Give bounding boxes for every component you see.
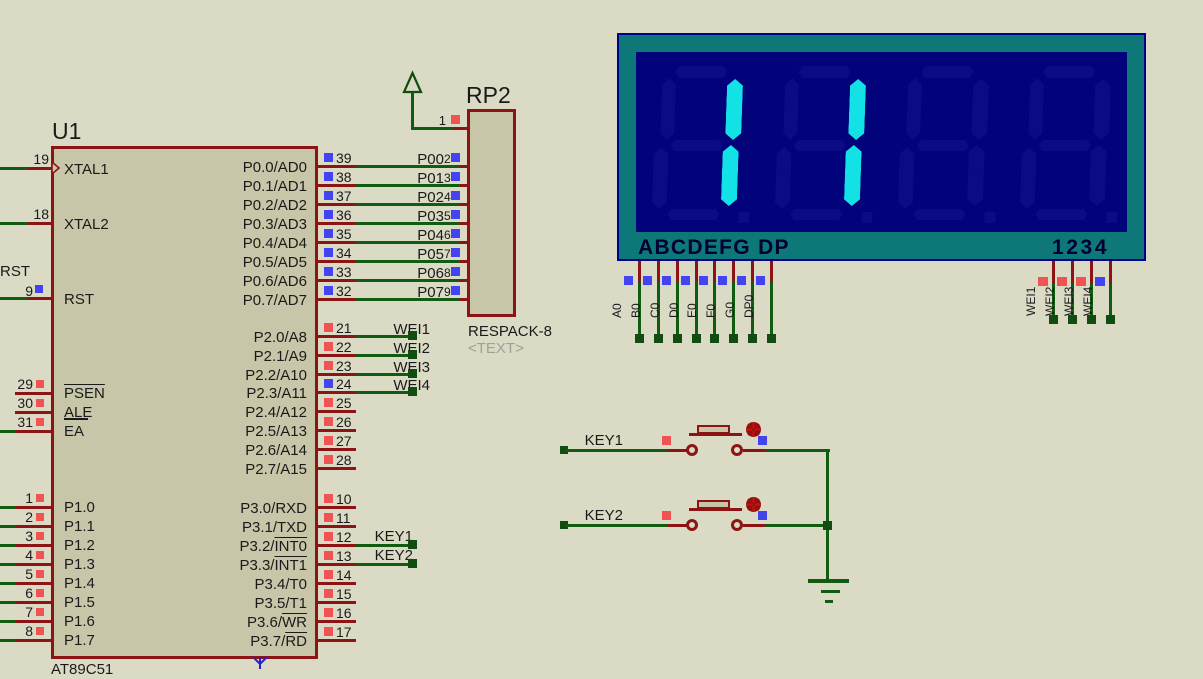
U1 pin name P0.6/AD6	[107, 274, 307, 289]
display segment pin B0 stub	[657, 261, 660, 282]
wire to U1 pin 31 (EA)	[0, 430, 15, 433]
terminal on net WEI3 (display side)	[1087, 315, 1096, 324]
net label A0 (rotated)	[611, 278, 623, 318]
U1 pin number 11	[336, 511, 351, 525]
U1 pin 8 stub	[15, 639, 52, 642]
terminal on net WEI4	[408, 387, 417, 396]
U1 pin 38 logic state square (blue)	[324, 172, 333, 181]
wire to U1 pin 19 (XTAL1)	[0, 167, 28, 170]
net label KEY1	[423, 433, 623, 448]
RP2 pin number 1	[246, 114, 446, 127]
U1 pin number 17	[336, 625, 352, 639]
RP2 pin number 8	[444, 267, 451, 279]
power symbol VCC	[400, 70, 426, 96]
U1 pin name P3.5/T1	[107, 596, 307, 611]
U1 pin name P3.0/RXD	[107, 501, 307, 516]
wire net P02 from U1 pin 37 to RP2 pin 4	[356, 203, 460, 206]
button KEY2 left pin stub	[667, 524, 687, 527]
U1 pin name P0.4/AD4	[107, 236, 307, 251]
wire to U1 pin 2 (P1.1)	[0, 525, 15, 528]
wire to U1 pin 3 (P1.2)	[0, 544, 15, 547]
net label WEI1 (rotated, display side)	[1025, 276, 1037, 316]
net label WEI4 (rotated, display side)	[1082, 276, 1094, 316]
U1 pin name P1.3	[64, 557, 95, 572]
U1 pin number 28	[336, 453, 352, 467]
U1 pin number 7	[0, 605, 33, 619]
U1 pin number 1	[0, 491, 33, 505]
button KEY2 right pin stub	[743, 524, 765, 527]
net label F0 (rotated)	[705, 278, 717, 318]
display digit 4 segments	[1001, 52, 1130, 232]
U1 pin 27 stub (P2.6)	[318, 448, 356, 451]
U1 pin name P0.3/AD3	[107, 217, 307, 232]
net label C0 (rotated)	[649, 278, 661, 318]
U1 pin number 9	[0, 284, 33, 298]
U1 pin number 21	[336, 321, 352, 335]
U1 pin 29 stub	[15, 392, 52, 395]
U1 pin number 36	[336, 208, 352, 222]
display segment pin A0 stub	[638, 261, 641, 282]
U1 pin number 15	[336, 587, 352, 601]
wire from power symbol to RP2 pin 1 (vertical)	[411, 92, 414, 130]
terminal on net DP0	[767, 334, 776, 343]
display pin D0 logic state square (blue)	[681, 276, 690, 285]
button KEY1 left contact circle	[686, 444, 698, 456]
U1 pin 36 stub (P0.3)	[318, 222, 356, 225]
display pin F0 logic state square (blue)	[718, 276, 727, 285]
U1 pin name P3.6/WR	[107, 615, 307, 630]
wire to U1 pin 8 (P1.7)	[0, 639, 15, 642]
U1 pin 3 logic state square (red)	[36, 532, 44, 540]
U1 pin number 30	[0, 396, 33, 410]
button KEY1 contact bar	[689, 433, 742, 436]
U1 pin 9 logic state square (blue)	[35, 285, 43, 293]
display segment pin D0 stub	[695, 261, 698, 282]
RP2 pin 2 stub	[460, 165, 469, 168]
U1 pin name P1.6	[64, 614, 95, 629]
wire net DP0	[770, 282, 773, 334]
display segment pin G0 stub	[751, 261, 754, 282]
U1 pin name P1.0	[64, 500, 95, 515]
U1 pin number 2	[0, 510, 33, 524]
U1 pin 21 stub (P2.0)	[318, 335, 356, 338]
RP2 pin 9 stub	[460, 298, 469, 301]
U1 pin name XTAL2	[64, 217, 109, 232]
display pin DP0 logic state square (blue)	[756, 276, 765, 285]
net label P03	[244, 209, 444, 224]
terminal on net E0	[710, 334, 719, 343]
button KEY1 blue logic square	[758, 436, 767, 445]
U1 pin number 12	[336, 530, 352, 544]
U1 pin number 39	[336, 151, 352, 165]
U1 pin 23 logic state square	[324, 361, 333, 370]
button KEY1 right contact circle	[731, 444, 743, 456]
U1 pin 7 stub	[15, 620, 52, 623]
U1 pin 32 stub (P0.7)	[318, 298, 356, 301]
display pin A0 logic state square (blue)	[624, 276, 633, 285]
U1 pin name P1.5	[64, 595, 95, 610]
wire net WEI1 (display side)	[1052, 284, 1055, 316]
U1 pin number 16	[336, 606, 352, 620]
RP2 pin number 9	[444, 286, 451, 298]
RP2 pin 7 stub	[460, 260, 469, 263]
U1 pin name P0.0/AD0	[107, 160, 307, 175]
wire net P05 from U1 pin 34 to RP2 pin 7	[356, 260, 460, 263]
RP2 reference label	[466, 84, 511, 107]
U1 pin number 35	[336, 227, 352, 241]
U1 pin number 38	[336, 170, 352, 184]
wire net KEY2 from U1 pin 13	[356, 563, 412, 566]
RP2 pin number 2	[444, 153, 451, 165]
U1 pin 22 stub (P2.1)	[318, 354, 356, 357]
U1 pin number 32	[336, 284, 352, 298]
display inner panel	[636, 52, 1127, 232]
display segment pin labels text	[638, 237, 790, 258]
display pin WEI1 logic state square	[1038, 277, 1048, 286]
U1 pin 1 stub	[15, 506, 52, 509]
terminal on net WEI2 (display side)	[1068, 315, 1077, 324]
U1 pin 2 logic state square (red)	[36, 513, 44, 521]
wire to U1 pin 6 (P1.5)	[0, 601, 15, 604]
wire net KEY1 from U1 pin 12	[356, 544, 412, 547]
U1 pin number 14	[336, 568, 352, 582]
terminal on net A0	[635, 334, 644, 343]
wire net WEI2 from U1 pin 22	[356, 354, 412, 357]
display segment pin C0 stub	[676, 261, 679, 282]
net label KEY1	[213, 529, 413, 544]
U1 pin number 34	[336, 246, 352, 260]
U1 pin name P2.5/A13	[107, 424, 307, 439]
wire net E0	[713, 282, 716, 334]
button KEY2 right contact circle	[731, 519, 743, 531]
display pin WEI4 logic state square	[1095, 277, 1105, 286]
U1 pin 22 logic state square	[324, 342, 333, 351]
U1 pin name RST	[64, 292, 94, 307]
U1 pin 30 stub	[15, 411, 52, 414]
RP2 pin 8 logic state square (blue)	[451, 267, 460, 276]
net label P01	[244, 171, 444, 186]
button KEY2 actuate marker	[744, 495, 763, 514]
U1 pin number 5	[0, 567, 33, 581]
U1 pin 19 stub	[28, 167, 52, 170]
net label WEI1	[230, 322, 430, 337]
display digit 3 segments	[879, 52, 1008, 232]
U1 pin name P0.7/AD7	[107, 293, 307, 308]
U1 pin number 4	[0, 548, 33, 562]
U1 pin 38 stub (P0.1)	[318, 184, 356, 187]
RP2 property placeholder	[468, 341, 524, 356]
resistor pack RP2 body	[467, 109, 516, 317]
terminal on net KEY2	[408, 559, 417, 568]
U1 pin 12 stub (P3.2)	[318, 544, 356, 547]
U1 pin 31 logic state square (red)	[36, 418, 44, 426]
button KEY1 logic state square (red)	[662, 436, 671, 445]
net label WEI3 (rotated, display side)	[1063, 276, 1075, 316]
display segment pin F0 stub	[732, 261, 735, 282]
U1 pin name P2.3/A11	[107, 386, 307, 401]
wire to U1 pin 18 (XTAL2)	[0, 222, 28, 225]
U1 pin 25 stub (P2.4)	[318, 410, 356, 413]
U1 pin 16 stub (P3.6)	[318, 620, 356, 623]
net label WEI4	[230, 378, 430, 393]
U1 pin 21 logic state square	[324, 323, 333, 332]
wire net C0	[676, 282, 679, 334]
wire net G0	[751, 282, 754, 334]
U1 pin 37 logic state square (blue)	[324, 191, 333, 200]
junction at KEY2 / ground trunk	[823, 521, 832, 530]
U1 pin name P3.4/T0	[107, 577, 307, 592]
RP2 pin 4 logic state square (blue)	[451, 191, 460, 200]
U1 pin number 6	[0, 586, 33, 600]
wire net P03 from U1 pin 36 to RP2 pin 5	[356, 222, 460, 225]
net label P06	[244, 266, 444, 281]
U1 pin 23 stub (P2.2)	[318, 373, 356, 376]
wire net P07 from U1 pin 32 to RP2 pin 9	[356, 298, 460, 301]
U1 pin 14 stub (P3.4)	[318, 582, 356, 585]
U1 pin number 37	[336, 189, 352, 203]
display digit pin WEI3 stub	[1090, 261, 1093, 284]
U1 pin 27 logic state square	[324, 436, 333, 445]
wire net WEI2 (display side)	[1071, 284, 1074, 316]
net label D0 (rotated)	[668, 278, 680, 318]
U1 pin 24 logic state square	[324, 379, 333, 388]
net label KEY2	[423, 508, 623, 523]
U1 pin 5 logic state square (red)	[36, 570, 44, 578]
display pin WEI2 logic state square	[1057, 277, 1067, 286]
display pin B0 logic state square (blue)	[643, 276, 652, 285]
button KEY1 actuate marker	[744, 420, 763, 439]
U1 pin 4 stub	[15, 563, 52, 566]
U1 pin number 10	[336, 492, 352, 506]
U1 pin number 13	[336, 549, 352, 563]
terminal on net B0	[654, 334, 663, 343]
display digit pin WEI2 stub	[1071, 261, 1074, 284]
RP2 pin 4 stub	[460, 203, 469, 206]
U1 pin name P2.1/A9	[107, 349, 307, 364]
net label KEY2	[213, 548, 413, 563]
U1 pin 10 stub (P3.0)	[318, 506, 356, 509]
U1 hidden ground pin marker (blue)	[250, 655, 270, 671]
U1 pin 11 logic state square (red)	[324, 513, 333, 522]
U1 pin 26 logic state square	[324, 417, 333, 426]
U1 pin 34 stub (P0.5)	[318, 260, 356, 263]
RP2 pin 6 logic state square (blue)	[451, 229, 460, 238]
display segment pin E0 stub	[713, 261, 716, 282]
U1 pin 9 stub	[28, 297, 52, 300]
terminal on net KEY1 (left)	[560, 446, 568, 454]
ground symbol bar 1	[808, 579, 849, 583]
RP2 pin 7 logic state square (blue)	[451, 248, 460, 257]
U1 pin number 31	[0, 415, 33, 429]
U1 pin name P2.6/A14	[107, 443, 307, 458]
button KEY2 actuator cap	[697, 500, 730, 509]
U1 pin number 18	[0, 207, 49, 221]
U1 pin 13 stub (P3.3)	[318, 563, 356, 566]
wire net P06 from U1 pin 33 to RP2 pin 8	[356, 279, 460, 282]
U1 pin number 23	[336, 359, 352, 373]
U1 pin name PSEN (overline)	[64, 386, 105, 401]
U1 pin 28 logic state square	[324, 455, 333, 464]
U1 pin 14 logic state square (red)	[324, 570, 333, 579]
net label G0 (rotated)	[724, 278, 736, 318]
terminal on net WEI3	[408, 369, 417, 378]
U1 pin number 22	[336, 340, 352, 354]
wire net A0	[638, 282, 641, 334]
U1 pin 37 stub (P0.2)	[318, 203, 356, 206]
wire net P00 from U1 pin 39 to RP2 pin 2	[356, 165, 460, 168]
RP2 pin 1 logic state square (red)	[451, 115, 460, 124]
RP2 pin 5 stub	[460, 222, 469, 225]
U1 pin number 8	[0, 624, 33, 638]
U1 pin number 29	[0, 377, 33, 391]
U1 pin name P2.0/A8	[107, 330, 307, 345]
net label B0 (rotated)	[630, 278, 642, 318]
U1 pin number 26	[336, 415, 352, 429]
terminal on net D0	[692, 334, 701, 343]
button KEY2 left contact circle	[686, 519, 698, 531]
net label E0 (rotated)	[686, 278, 698, 318]
button KEY1 right pin stub	[743, 449, 765, 452]
U1 pin name P1.7	[64, 633, 95, 648]
U1 pin name P2.2/A10	[107, 368, 307, 383]
wire net F0	[732, 282, 735, 334]
U1 pin 28 stub (P2.7)	[318, 467, 356, 470]
terminal on net KEY1	[408, 540, 417, 549]
U1 pin 24 stub (P2.3)	[318, 391, 356, 394]
U1 pin 18 stub	[28, 222, 52, 225]
RP2 pin 3 stub	[460, 184, 469, 187]
U1 pin name P1.1	[64, 519, 95, 534]
U1 pin 33 stub (P0.6)	[318, 279, 356, 282]
RP2 pin number 4	[444, 191, 451, 203]
terminal on net C0	[673, 334, 682, 343]
U1 pin 34 logic state square (blue)	[324, 248, 333, 257]
RP2 value label RESPACK-8	[468, 324, 552, 339]
U1 pin name P2.7/A15	[107, 462, 307, 477]
U1 pin 17 logic state square (red)	[324, 627, 333, 636]
U1 pin 35 stub (P0.4)	[318, 241, 356, 244]
net label WEI2 (rotated, display side)	[1044, 276, 1056, 316]
wire from button KEY1 to ground trunk	[765, 449, 830, 452]
terminal on net WEI1	[408, 331, 417, 340]
wire from button KEY2 to ground trunk	[765, 524, 830, 527]
wire net KEY1 from terminal to button	[566, 449, 667, 452]
U1 pin name P3.2/INT0	[107, 539, 307, 554]
net label WEI2	[230, 341, 430, 356]
button KEY1 left pin stub	[667, 449, 687, 452]
ground trunk wire (vertical)	[826, 449, 829, 581]
RP2 pin 9 logic state square (blue)	[451, 286, 460, 295]
RP2 pin 3 logic state square (blue)	[451, 172, 460, 181]
U1 pin 10 logic state square (red)	[324, 494, 333, 503]
U1 pin 30 logic state square (red)	[36, 399, 44, 407]
U1 pin 8 logic state square (red)	[36, 627, 44, 635]
U1 pin 13 logic state square (red)	[324, 551, 333, 560]
U1 pin name XTAL1	[64, 162, 109, 177]
U1 pin 6 stub	[15, 601, 52, 604]
wire from power symbol to RP2 pin 1 (horizontal)	[411, 127, 453, 130]
4-digit 7-segment display body	[617, 33, 1146, 261]
U1 pin name P3.1/TXD	[107, 520, 307, 535]
RP2 pin number 7	[444, 248, 451, 260]
U1 pin 39 logic state square (blue)	[324, 153, 333, 162]
terminal on net F0	[729, 334, 738, 343]
U1 pin 16 logic state square (red)	[324, 608, 333, 617]
net label P04	[244, 228, 444, 243]
display pin E0 logic state square (blue)	[699, 276, 708, 285]
display digit pin WEI4 stub	[1109, 261, 1112, 284]
wire net B0	[657, 282, 660, 334]
button KEY2 logic state square (red)	[662, 511, 671, 520]
U1 pin 36 logic state square (blue)	[324, 210, 333, 219]
wire net D0	[695, 282, 698, 334]
U1 pin 11 stub (P3.1)	[318, 525, 356, 528]
U1 pin name P1.2	[64, 538, 95, 553]
display pin G0 logic state square (blue)	[737, 276, 746, 285]
RP2 pin 1 stub	[453, 127, 467, 130]
display pin WEI3 logic state square	[1076, 277, 1086, 286]
terminal on net WEI1 (display side)	[1049, 315, 1058, 324]
wire net P01 from U1 pin 38 to RP2 pin 3	[356, 184, 460, 187]
RP2 pin number 3	[444, 172, 451, 184]
U1 pin 25 logic state square	[324, 398, 333, 407]
U1 value label AT89C51	[51, 662, 113, 677]
U1 pin name P3.7/RD	[107, 634, 307, 649]
U1 pin 17 stub (P3.7)	[318, 639, 356, 642]
U1 pin 33 logic state square (blue)	[324, 267, 333, 276]
U1 pin 4 logic state square (red)	[36, 551, 44, 559]
RP2 pin 5 logic state square (blue)	[451, 210, 460, 219]
U1 pin 15 logic state square (red)	[324, 589, 333, 598]
U1 pin 5 stub	[15, 582, 52, 585]
net label P00	[244, 152, 444, 167]
RP2 pin number 6	[444, 229, 451, 241]
wire net WEI3 (display side)	[1090, 284, 1093, 316]
U1 pin 6 logic state square (red)	[36, 589, 44, 597]
U1 pin 26 stub (P2.5)	[318, 429, 356, 432]
display digit pin labels text	[1052, 237, 1109, 258]
wire to U1 pin 1 (P1.0)	[0, 506, 15, 509]
underline below ALE	[64, 418, 88, 420]
display pin C0 logic state square (blue)	[662, 276, 671, 285]
RP2 pin 8 stub	[460, 279, 469, 282]
wire net P04 from U1 pin 35 to RP2 pin 6	[356, 241, 460, 244]
U1 pin number 3	[0, 529, 33, 543]
U1 pin 32 logic state square (blue)	[324, 286, 333, 295]
IC U1 AT89C51 body	[51, 146, 318, 659]
U1 pin name P3.3/INT1	[107, 558, 307, 573]
U1 pin name P0.5/AD5	[107, 255, 307, 270]
button KEY2 contact bar	[689, 508, 742, 511]
wire net WEI3 from U1 pin 23	[356, 373, 412, 376]
U1 pin number 33	[336, 265, 352, 279]
wire to U1 pin 7 (P1.6)	[0, 620, 15, 623]
display digit 1 segments	[633, 52, 762, 232]
U1 pin 3 stub	[15, 544, 52, 547]
U1 clock marker on XTAL1	[51, 161, 61, 175]
terminal on net KEY2 (left)	[560, 521, 568, 529]
net label P05	[244, 247, 444, 262]
U1 pin name P0.1/AD1	[107, 179, 307, 194]
RP2 pin 2 logic state square (blue)	[451, 153, 460, 162]
U1 pin 1 logic state square (red)	[36, 494, 44, 502]
U1 pin name P2.4/A12	[107, 405, 307, 420]
U1 pin name P1.4	[64, 576, 95, 591]
U1 pin 35 logic state square (blue)	[324, 229, 333, 238]
wire net WEI4 (display side)	[1109, 284, 1112, 316]
wire net KEY2 from terminal to button	[566, 524, 667, 527]
net label RST	[0, 264, 30, 279]
